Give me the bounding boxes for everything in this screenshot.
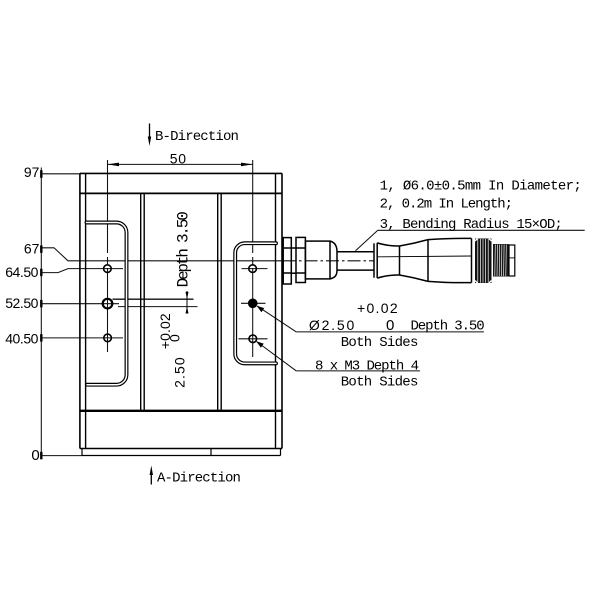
svg-text:1, Ø6.0±0.5mm In Diameter;: 1, Ø6.0±0.5mm In Diameter; bbox=[380, 178, 582, 194]
svg-text:8 x M3 Depth 4: 8 x M3 Depth 4 bbox=[315, 358, 419, 374]
svg-text:Depth 3.50: Depth 3.50 bbox=[411, 319, 485, 335]
svg-text:64.50: 64.50 bbox=[5, 264, 38, 280]
svg-text:40.50: 40.50 bbox=[5, 331, 38, 347]
svg-text:97: 97 bbox=[24, 164, 40, 180]
svg-text:A-Direction: A-Direction bbox=[157, 471, 241, 487]
svg-text:0: 0 bbox=[386, 317, 394, 334]
svg-text:+0.02: +0.02 bbox=[357, 300, 399, 316]
svg-text:Both Sides: Both Sides bbox=[341, 374, 418, 390]
svg-text:2, 0.2m In Length;: 2, 0.2m In Length; bbox=[380, 196, 512, 212]
svg-text:Both Sides: Both Sides bbox=[341, 335, 418, 351]
svg-text:Depth 3.50: Depth 3.50 bbox=[174, 212, 192, 288]
svg-text:B-Direction: B-Direction bbox=[155, 129, 239, 145]
svg-text:3, Bending Radius 15×OD;: 3, Bending Radius 15×OD; bbox=[380, 217, 562, 233]
svg-text:2.50: 2.50 bbox=[172, 356, 188, 388]
svg-text:+0.02: +0.02 bbox=[157, 313, 173, 349]
svg-text:67: 67 bbox=[24, 240, 40, 256]
svg-text:0: 0 bbox=[166, 334, 182, 342]
svg-text:50: 50 bbox=[170, 151, 187, 167]
svg-text:52.50: 52.50 bbox=[5, 295, 38, 311]
svg-text:0: 0 bbox=[31, 447, 39, 464]
svg-text:Ø2.50: Ø2.50 bbox=[309, 317, 356, 333]
